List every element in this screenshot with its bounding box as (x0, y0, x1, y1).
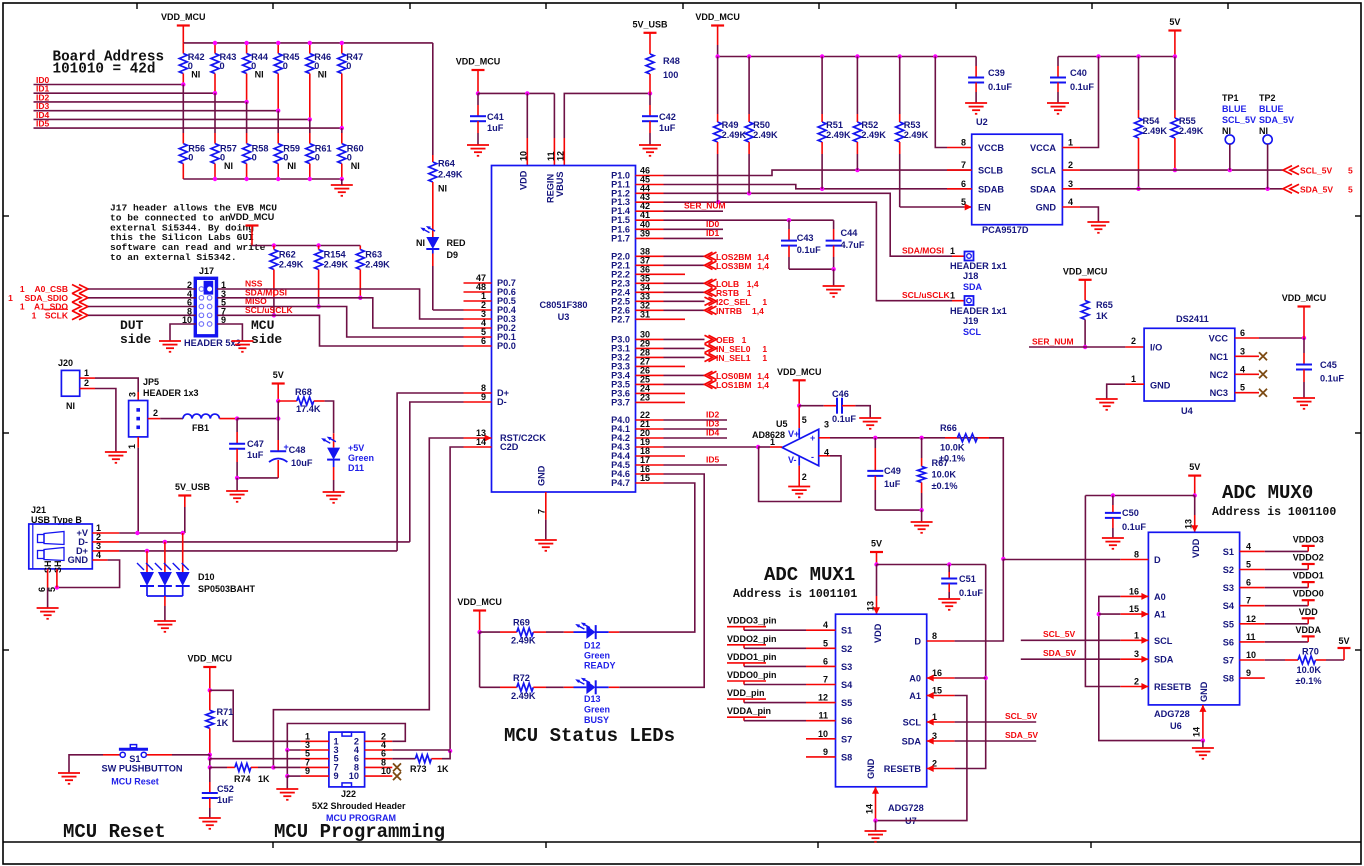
resistor R59 (277, 111, 279, 133)
svg-text:D-: D- (497, 397, 507, 407)
svg-text:2.49K: 2.49K (904, 130, 929, 140)
ground (159, 341, 181, 352)
svg-text:-: - (811, 452, 814, 462)
power 5V (272, 382, 285, 384)
svg-text:13: 13 (866, 601, 876, 611)
ground (938, 599, 960, 610)
svg-text:S2: S2 (841, 644, 852, 654)
svg-text:2.49K: 2.49K (753, 130, 778, 140)
svg-text:D12: D12 (584, 641, 601, 651)
capacitor C51 0.1uF (948, 565, 950, 573)
capacitor C45 0.1uF (1303, 338, 1305, 353)
svg-text:2: 2 (153, 408, 158, 418)
svg-text:16: 16 (1129, 586, 1139, 596)
svg-text:VCCA: VCCA (1030, 143, 1056, 153)
U3 pin 48 P0.6 (464, 291, 492, 293)
junction S1 (208, 753, 212, 757)
svg-text:ADC MUX1: ADC MUX1 (764, 564, 855, 586)
svg-text:4: 4 (1246, 541, 1251, 551)
svg-text:S8: S8 (1223, 674, 1234, 684)
U3 pin 39 P1.7 (636, 237, 664, 239)
net ID1 (P1.7) (664, 237, 724, 239)
svg-text:1,4: 1,4 (752, 306, 764, 316)
svg-text:NI: NI (318, 70, 327, 80)
junction FB1/C47 (235, 416, 239, 420)
off-page LOS1BM (705, 380, 717, 388)
svg-text:R50: R50 (753, 120, 770, 130)
svg-text:GND: GND (1199, 681, 1209, 702)
svg-text:39: 39 (640, 228, 650, 238)
resistor R43 (214, 43, 216, 54)
svg-text:RESETB: RESETB (884, 764, 922, 774)
ground (1047, 103, 1069, 114)
wire VDD down to R72 (479, 632, 481, 687)
svg-text:side: side (251, 332, 282, 347)
svg-text:6: 6 (961, 179, 966, 189)
svg-text:GND: GND (866, 758, 876, 779)
wire REGIN drop (553, 93, 555, 138)
svg-text:31: 31 (640, 309, 650, 319)
ground (58, 773, 80, 784)
wire JP5 pin1 down to USB +V row (137, 437, 139, 448)
net SCL_5V (U7) (955, 721, 1037, 723)
svg-text:17.4K: 17.4K (296, 404, 321, 414)
wire VDD to J22 pin1 (210, 690, 301, 741)
U3 pin 20 P4.2 (636, 437, 664, 439)
junction 5V/R68 (276, 399, 280, 403)
svg-text:VDDO1: VDDO1 (1293, 571, 1324, 581)
capacitor C42 1uF (649, 93, 651, 105)
svg-text:SCL_5V: SCL_5V (1043, 629, 1075, 639)
svg-text:C44: C44 (841, 228, 859, 238)
svg-text:R63: R63 (365, 250, 382, 260)
svg-text:C45: C45 (1320, 360, 1337, 370)
svg-text:R68: R68 (295, 387, 312, 397)
off-page I2C_SEL (705, 297, 717, 305)
U3 pin 30 P3.0 (636, 338, 664, 340)
svg-text:AD8628: AD8628 (752, 430, 785, 440)
svg-text:SCL: SCL (1154, 636, 1173, 646)
junction gnd (919, 508, 923, 512)
svg-text:R72: R72 (513, 673, 530, 683)
svg-text:0: 0 (346, 61, 351, 71)
svg-text:VDDA_pin: VDDA_pin (727, 706, 771, 716)
ground (323, 492, 345, 503)
svg-text:4.7uF: 4.7uF (841, 240, 865, 250)
wire D+ to U3 pin8 (397, 393, 463, 551)
junction R62 (272, 313, 276, 317)
U3 pin 27 P3.3 (636, 365, 664, 367)
svg-text:3: 3 (1068, 179, 1073, 189)
svg-text:C51: C51 (959, 574, 976, 584)
svg-text:11: 11 (1246, 632, 1256, 642)
ground (199, 818, 221, 829)
svg-text:GND: GND (1036, 203, 1057, 213)
USB plug icon (38, 532, 65, 561)
wire JP5 pin2 stub (148, 418, 161, 420)
svg-text:ADC MUX0: ADC MUX0 (1222, 482, 1313, 504)
J22 left stub row 4 (301, 766, 329, 768)
junction R69 (477, 630, 481, 634)
wire SCLB stub (947, 169, 972, 171)
resistor R63 2.49K (359, 246, 361, 250)
wire RST to reset circuit (273, 438, 463, 767)
ground (1192, 748, 1214, 759)
ground (911, 522, 933, 533)
U3 pin 14 C2D (464, 446, 492, 448)
svg-text:5: 5 (1348, 166, 1353, 176)
svg-text:1: 1 (8, 293, 13, 303)
svg-text:MCU Programming: MCU Programming (274, 821, 445, 843)
svg-text:ID5: ID5 (36, 119, 50, 129)
svg-text:Green: Green (584, 651, 610, 661)
svg-text:2.49K: 2.49K (511, 691, 536, 701)
svg-text:RED: RED (447, 238, 467, 248)
svg-text:1uF: 1uF (247, 450, 264, 460)
svg-text:VDDO1_pin: VDDO1_pin (727, 652, 777, 662)
svg-text:S1: S1 (841, 626, 852, 636)
svg-text:A1: A1 (909, 691, 921, 701)
resistor R49 2.49K (717, 57, 719, 115)
svg-text:VDD_MCU: VDD_MCU (1063, 266, 1108, 276)
U3 pin 22 P4.0 (636, 419, 664, 421)
LED D12 Green READY (564, 631, 574, 633)
svg-text:IN_SEL1: IN_SEL1 (716, 353, 751, 363)
off-page LOS2BM (705, 252, 717, 260)
net SDA_5V (U6) (1021, 658, 1121, 660)
U3 pin 31 P2.7 (636, 318, 664, 320)
svg-text:C40: C40 (1070, 68, 1087, 78)
wire P1.3 SCL/uSCLK to J19 (664, 202, 953, 301)
svg-text:A0: A0 (909, 674, 921, 684)
wire C43/C44 bottom (789, 268, 834, 270)
wire U4 GND pin1 (1125, 383, 1144, 385)
svg-text:1: 1 (20, 302, 25, 312)
svg-text:P4.7: P4.7 (611, 478, 630, 488)
net SCL_5V (U6) (1021, 639, 1121, 641)
svg-text:SDA: SDA (963, 282, 983, 292)
wire SCL/uSCLK to P0.0 (217, 315, 464, 346)
svg-text:5V: 5V (1169, 17, 1180, 27)
resistor R68 17.4K (278, 400, 297, 402)
svg-text:S7: S7 (841, 734, 852, 744)
svg-text:6: 6 (481, 336, 486, 346)
test point TP2 (1263, 135, 1272, 144)
svg-text:VDD_MCU: VDD_MCU (457, 597, 502, 607)
wire A0/A1 tie to GND (1099, 596, 1203, 740)
svg-text:SCLK: SCLK (45, 310, 69, 320)
svg-text:9: 9 (334, 771, 339, 781)
wire P4.6 to LED D13 (619, 474, 704, 687)
U3 pin 28 P3.2 (636, 356, 664, 358)
svg-text:HEADER 1x1: HEADER 1x1 (950, 261, 1007, 271)
svg-text:2.49K: 2.49K (861, 130, 886, 140)
wire U6 D from R66 net (1003, 559, 1120, 561)
wire +V row (92, 532, 119, 534)
junction shield (55, 585, 59, 589)
LED D11 +5V Green (333, 433, 335, 447)
wire U7 VDD pin13 (876, 565, 878, 597)
net ID0 (P1.6) (664, 228, 724, 230)
svg-text:J20: J20 (58, 358, 73, 368)
junction gnd (1201, 738, 1205, 742)
svg-text:4: 4 (1068, 197, 1073, 207)
capacitor C46 0.1uF (799, 405, 824, 407)
wire P1.0 to SCLB (664, 170, 972, 175)
svg-text:VDD: VDD (1191, 538, 1201, 558)
wire U6 VDD pin13 (1194, 496, 1196, 516)
wire U7 D to R66 net (955, 559, 1004, 641)
svg-text:13: 13 (1184, 519, 1194, 529)
svg-text:C50: C50 (1122, 508, 1139, 518)
svg-text:101010 = 42d: 101010 = 42d (53, 61, 156, 77)
svg-text:VDD_pin: VDD_pin (727, 688, 765, 698)
svg-text:S5: S5 (841, 698, 852, 708)
no-connect (393, 763, 401, 771)
svg-text:R64: R64 (438, 159, 456, 169)
svg-text:FB1: FB1 (192, 423, 209, 433)
LED D13 Green BUSY (564, 686, 574, 688)
svg-text:DS2411: DS2411 (1176, 314, 1209, 324)
junction VCC/C45 (1302, 336, 1306, 340)
svg-text:S1: S1 (1223, 547, 1234, 557)
svg-text:4: 4 (824, 448, 829, 458)
junction gnd (831, 267, 835, 271)
svg-text:P2.7: P2.7 (611, 314, 630, 324)
svg-text:NI: NI (287, 161, 296, 171)
svg-text:VDD_MCU: VDD_MCU (456, 57, 501, 67)
U3 pin 21 P4.1 (636, 428, 664, 430)
svg-text:VDD_MCU: VDD_MCU (777, 367, 822, 377)
svg-text:1: 1 (950, 246, 955, 256)
svg-text:R48: R48 (663, 56, 680, 66)
stub extension (664, 392, 686, 394)
resistor R45 (277, 43, 279, 54)
junction ID3/R45 (276, 109, 280, 113)
wire D- row (92, 541, 119, 543)
svg-text:1: 1 (770, 437, 775, 447)
junction VDD bus (476, 91, 480, 95)
junction R154 (316, 304, 320, 308)
svg-text:D10: D10 (198, 572, 215, 582)
wire top bus (183, 42, 341, 44)
U3 pin 13 RST/C2CK (464, 437, 492, 439)
wire bus to R64 column (342, 42, 433, 44)
svg-text:10: 10 (519, 151, 529, 161)
U5 pin4 - input / feedback loop (819, 455, 830, 457)
svg-text:SCL: SCL (963, 327, 982, 337)
svg-text:10: 10 (818, 729, 828, 739)
svg-text:10: 10 (349, 771, 359, 781)
svg-text:NI: NI (351, 161, 360, 171)
svg-text:2.49K: 2.49K (1143, 126, 1168, 136)
svg-text:1: 1 (127, 444, 137, 449)
svg-text:MCU: MCU (251, 318, 274, 333)
U3 pin 4 P0.2 (464, 327, 492, 329)
wire FB1 to C47 node (219, 418, 237, 420)
svg-text:S8: S8 (841, 752, 852, 762)
svg-text:VDD_MCU: VDD_MCU (1282, 293, 1327, 303)
svg-text:SP0503BAHT: SP0503BAHT (198, 584, 256, 594)
svg-text:C47: C47 (247, 439, 264, 449)
svg-text:VCCB: VCCB (978, 143, 1004, 153)
junction ID1/R43 (213, 91, 217, 95)
svg-text:DUT: DUT (120, 318, 144, 333)
wire P1.5 to C43/C44 (664, 219, 834, 221)
svg-text:9: 9 (823, 747, 828, 757)
resistor R54 2.49K (1138, 57, 1140, 111)
svg-text:ID1: ID1 (706, 228, 720, 238)
wire 5V bus (U6) (1085, 495, 1194, 497)
svg-text:1uF: 1uF (884, 479, 901, 489)
off-page INTRB (705, 306, 717, 314)
svg-text:NI: NI (438, 184, 447, 194)
svg-text:VDD: VDD (519, 170, 529, 190)
wire D9 to P0.4 (433, 309, 464, 311)
ground (859, 418, 881, 429)
svg-text:HEADER 1x3: HEADER 1x3 (143, 388, 199, 398)
wire U7 GND pin14 (875, 787, 877, 821)
svg-text:NI: NI (1222, 126, 1231, 136)
resistor R64 2.49K NI (432, 43, 434, 155)
wire SDAA / net SDA_5V (1062, 188, 1080, 190)
off-page IN_SEL0 (705, 344, 717, 352)
junction R55/SCLA (1173, 168, 1177, 172)
U3 pin 2 P0.4 (464, 309, 492, 311)
svg-text:ID5: ID5 (706, 455, 720, 465)
svg-text:V+: V+ (788, 429, 799, 439)
svg-text:R70: R70 (1302, 647, 1319, 657)
svg-text:3: 3 (1134, 649, 1139, 659)
junction ID5/R47 (340, 126, 344, 130)
svg-text:V-: V- (788, 455, 797, 465)
svg-text:VDD_MCU: VDD_MCU (230, 212, 275, 222)
svg-text:R69: R69 (513, 618, 530, 628)
ground (231, 341, 253, 352)
svg-text:R71: R71 (217, 707, 234, 717)
svg-text:MCU Status LEDs: MCU Status LEDs (504, 725, 675, 747)
U3 pin 1 P0.5 (464, 300, 492, 302)
svg-text:1: 1 (32, 310, 37, 320)
svg-text:SCL/uSCLK: SCL/uSCLK (902, 290, 951, 300)
junction gnd (873, 818, 877, 822)
junction C2D/pin4 (448, 749, 452, 753)
svg-text:NI: NI (191, 70, 200, 80)
svg-text:LOS1BM: LOS1BM (716, 380, 751, 390)
junction bus/R47 (340, 41, 344, 45)
wire P4.7 to LED D12 (619, 483, 695, 632)
svg-text:D: D (1154, 555, 1161, 565)
svg-text:1,4: 1,4 (757, 380, 769, 390)
svg-text:5: 5 (1348, 184, 1353, 194)
svg-text:R74: R74 (234, 774, 251, 784)
svg-text:NC2: NC2 (1210, 370, 1228, 380)
svg-text:2.49K: 2.49K (438, 170, 463, 180)
svg-text:R73: R73 (410, 764, 427, 774)
svg-text:JP5: JP5 (143, 377, 159, 387)
svg-text:+5V: +5V (348, 443, 364, 453)
svg-text:14: 14 (476, 437, 486, 447)
junction VDD/R71 (208, 688, 212, 692)
off-page IN_SEL1 (705, 353, 717, 361)
resistor R56 (182, 85, 184, 134)
svg-text:2: 2 (84, 378, 89, 388)
svg-text:J19: J19 (963, 316, 978, 326)
J22 right stub row 1 (365, 740, 393, 742)
power VDD_MCU (203, 666, 216, 668)
IC U6 ADG728 (1148, 532, 1239, 705)
svg-text:S4: S4 (1223, 601, 1235, 611)
svg-text:U4: U4 (1181, 406, 1194, 416)
svg-text:±0.1%: ±0.1% (939, 454, 965, 464)
svg-text:C8051F380: C8051F380 (539, 300, 587, 310)
wire P1.2 SDA/MOSI to J18 (664, 193, 953, 256)
svg-text:LOS3BM: LOS3BM (716, 261, 751, 271)
no-connect (1259, 352, 1267, 360)
junction V+ node (797, 404, 801, 408)
svg-text:10.0K: 10.0K (1297, 665, 1322, 675)
junction ID2/R44 (244, 100, 248, 104)
svg-text:9: 9 (1246, 668, 1251, 678)
svg-text:2: 2 (1134, 677, 1139, 687)
junction bus/R44 (244, 41, 248, 45)
svg-text:1: 1 (950, 290, 955, 300)
svg-text:5V: 5V (273, 370, 284, 380)
svg-text:C49: C49 (884, 466, 901, 476)
wire gnd net down to pin9 and ground (286, 750, 288, 776)
svg-text:1uF: 1uF (487, 123, 504, 133)
capacitor C48 10uF polarized (277, 419, 279, 440)
capacitor C44 4.7uF (833, 220, 835, 229)
svg-text:2: 2 (1068, 160, 1073, 170)
U3 pin 23 P3.7 (636, 401, 664, 403)
svg-text:R53: R53 (904, 120, 921, 130)
power VDD_MCU (472, 69, 485, 71)
svg-text:23: 23 (640, 392, 650, 402)
svg-text:6: 6 (823, 656, 828, 666)
svg-text:5V: 5V (1189, 462, 1200, 472)
U3 pin 43 P1.3 (636, 201, 664, 203)
svg-text:U6: U6 (1170, 721, 1182, 731)
junction 5V (1193, 493, 1197, 497)
TVS array D10 SP0503BAHT (146, 551, 148, 572)
junction C48 node (276, 416, 280, 420)
junction A1 (1097, 612, 1101, 616)
wire VDD_MCU to bus (182, 26, 184, 43)
svg-text:A0: A0 (1154, 592, 1166, 602)
svg-text:SDAA: SDAA (1030, 184, 1056, 194)
junction bus/R45 (276, 41, 280, 45)
stub extension (664, 318, 686, 320)
U3 pin 33 P2.5 (636, 300, 664, 302)
svg-text:VDDA: VDDA (1295, 625, 1321, 635)
svg-text:1K: 1K (217, 718, 229, 728)
junction R52/SCLB (855, 168, 859, 172)
svg-text:5: 5 (1240, 383, 1245, 393)
J22 left stub row 2 (301, 749, 329, 751)
junction output/feedback (756, 445, 760, 449)
U3 pin 44 P1.2 (636, 192, 664, 194)
wire D+ row (92, 550, 119, 552)
svg-text:3: 3 (128, 392, 138, 397)
junction D net (1001, 557, 1005, 561)
svg-text:SDA_5V: SDA_5V (1300, 184, 1333, 194)
U3 pin 25 P3.5 (636, 383, 664, 385)
svg-text:1K: 1K (258, 774, 270, 784)
svg-text:R51: R51 (826, 120, 843, 130)
svg-text:2.49K: 2.49K (826, 130, 851, 140)
U3 pin 42 P1.4 (636, 210, 664, 212)
